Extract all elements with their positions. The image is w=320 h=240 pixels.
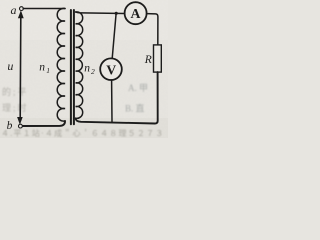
primary winding n1 bbox=[57, 8, 65, 121]
junction dot at voltmeter tap bbox=[115, 12, 118, 15]
svg-text:1: 1 bbox=[46, 66, 50, 75]
voltage arrow u (double headed) bbox=[19, 15, 22, 120]
svg-text:R: R bbox=[144, 54, 152, 66]
wire: a to primary coil top bbox=[23, 8, 65, 10]
wire: ammeter to right corner and down to resistor bbox=[147, 14, 158, 45]
svg-text:u: u bbox=[7, 59, 13, 73]
svg-text:４.平１站·４成＂心＇６４８理５２７３: ４.平１站·４成＂心＇６４８理５２７３ bbox=[1, 128, 164, 138]
terminal a circle bbox=[20, 7, 24, 11]
svg-text:A: A bbox=[131, 6, 141, 21]
svg-text:A. 甲: A. 甲 bbox=[128, 83, 148, 93]
svg-text:B. 直: B. 直 bbox=[125, 103, 145, 114]
voltmeter circle V bbox=[100, 58, 122, 80]
svg-text:b: b bbox=[7, 120, 13, 132]
core line right bbox=[73, 10, 75, 124]
terminal b circle bbox=[19, 124, 23, 128]
svg-text:2: 2 bbox=[91, 67, 95, 76]
bleed-through margin marks left edge bbox=[2, 42, 4, 60]
wire: primary coil bottom to b bbox=[22, 121, 65, 126]
svg-text:的;平: 的;平 bbox=[2, 86, 29, 97]
svg-text:理;时: 理;时 bbox=[2, 102, 29, 113]
paper background bbox=[0, 0, 168, 138]
core line left bbox=[70, 10, 72, 124]
svg-text:a: a bbox=[11, 3, 17, 17]
resistor R body bbox=[154, 45, 162, 72]
svg-text:V: V bbox=[106, 63, 116, 78]
arrowhead down near b bbox=[17, 117, 23, 125]
arrowhead up near a bbox=[18, 10, 24, 18]
wire: voltmeter bottom to rail bbox=[111, 80, 113, 122]
svg-text:n: n bbox=[39, 61, 45, 73]
wire: resistor bottom down, bottom rail back to secondary bbox=[76, 72, 158, 123]
paper grain bbox=[0, 0, 168, 138]
ammeter circle A bbox=[125, 2, 147, 24]
secondary winding n2 bbox=[76, 12, 83, 119]
wire: junction down to voltmeter bbox=[112, 14, 116, 59]
wire: secondary top to ammeter bbox=[76, 12, 125, 14]
svg-text:n: n bbox=[84, 62, 90, 74]
